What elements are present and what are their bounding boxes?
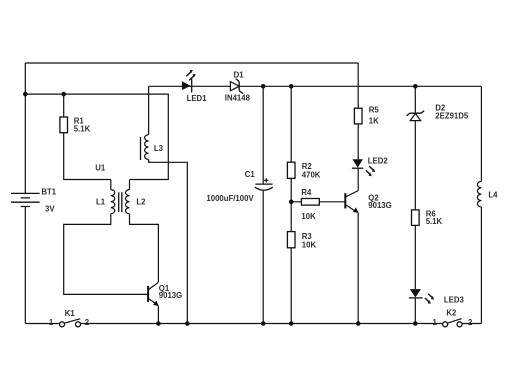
svg-text:5.1K: 5.1K	[426, 217, 443, 226]
svg-text:1: 1	[49, 318, 54, 327]
svg-text:R4: R4	[301, 188, 312, 197]
svg-text:L2: L2	[136, 198, 146, 207]
svg-text:K1: K1	[65, 309, 76, 318]
svg-text:K2: K2	[446, 309, 457, 318]
svg-text:5.1K: 5.1K	[74, 125, 91, 134]
svg-text:BT1: BT1	[41, 188, 56, 197]
svg-text:LED1: LED1	[187, 94, 208, 103]
svg-text:10K: 10K	[301, 212, 316, 221]
svg-text:2EZ91D5: 2EZ91D5	[435, 111, 469, 120]
svg-text:1: 1	[433, 318, 438, 327]
svg-text:IN4148: IN4148	[225, 94, 251, 103]
svg-text:R5: R5	[369, 106, 380, 115]
svg-text:C1: C1	[245, 170, 256, 179]
svg-text:9013G: 9013G	[368, 201, 391, 210]
svg-text:LED3: LED3	[444, 296, 465, 305]
svg-text:L3: L3	[154, 144, 164, 153]
svg-text:U1: U1	[95, 164, 106, 173]
svg-text:2: 2	[85, 318, 90, 327]
svg-text:LED2: LED2	[368, 157, 389, 166]
svg-text:470K: 470K	[302, 170, 321, 179]
svg-text:1000uF/100V: 1000uF/100V	[206, 194, 254, 203]
svg-text:1K: 1K	[369, 117, 379, 126]
svg-text:3V: 3V	[45, 205, 55, 214]
svg-text:9013G: 9013G	[159, 291, 182, 300]
svg-text:10K: 10K	[302, 240, 317, 249]
svg-text:L4: L4	[488, 191, 498, 200]
svg-text:D1: D1	[234, 71, 245, 80]
svg-text:2: 2	[468, 318, 473, 327]
svg-text:L1: L1	[96, 198, 106, 207]
